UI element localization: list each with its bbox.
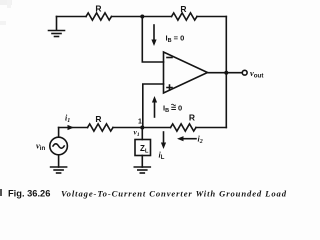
wire bottom rail left (vin to R3) with i1 arrow — [59, 114, 88, 131]
resistor R1 — [86, 4, 111, 21]
scan mark left edge — [0, 0, 12, 196]
svg-text:R: R — [189, 113, 195, 123]
node A junction — [140, 15, 144, 19]
svg-text:Fig. 36.26: Fig. 36.26 — [8, 188, 50, 198]
resistor R3 — [88, 114, 113, 131]
wire R1 to node A — [112, 16, 172, 18]
wire R2 to right rail — [197, 16, 226, 18]
terminal vout — [242, 68, 263, 80]
wire non-inverting input — [143, 84, 164, 128]
arrow IB=0 (top, down) — [151, 25, 184, 46]
wire node A down to inverting input — [142, 17, 163, 63]
wire load to ground — [141, 156, 143, 168]
resistor R4 — [171, 113, 196, 132]
svg-text:0: 0 — [178, 104, 182, 113]
ground (below vin) — [51, 167, 67, 173]
arrow iL (down) — [159, 132, 167, 161]
wire ground to R1 — [57, 16, 87, 18]
wire source to bottom rail — [58, 128, 60, 138]
arrow i2 (leftwards) — [177, 135, 203, 146]
svg-text:R: R — [95, 4, 101, 14]
ground (top-left) — [49, 17, 65, 37]
wire source to ground — [58, 155, 60, 167]
svg-text:Voltage-To-Current Converter W: Voltage-To-Current Converter With Ground… — [61, 188, 287, 198]
svg-text:R: R — [180, 4, 186, 14]
wire op-amp output — [208, 72, 243, 74]
caption Fig. 36.26 — [8, 188, 287, 198]
wire right rail vertical — [225, 17, 227, 128]
wire R4 to right rail — [196, 127, 226, 129]
svg-text:1: 1 — [138, 119, 142, 126]
node 1 junction — [134, 119, 145, 138]
source vin — [36, 137, 67, 155]
wire R3 to node 1 — [113, 127, 171, 129]
ground (below ZL) — [134, 167, 150, 173]
arrow IB~0 (bottom, up) — [152, 96, 182, 117]
resistor R2 (feedback) — [172, 4, 197, 20]
svg-text:R: R — [95, 114, 101, 124]
load ZL — [135, 140, 151, 156]
node output junction — [224, 71, 228, 75]
wire node 1 to load — [141, 128, 143, 140]
op-amp U1 — [164, 52, 208, 93]
